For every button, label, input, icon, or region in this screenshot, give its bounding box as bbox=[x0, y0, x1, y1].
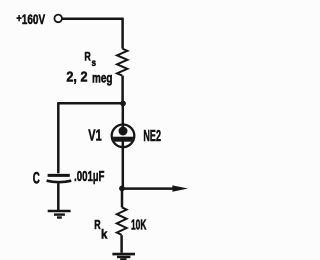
svg-text:10K: 10K bbox=[131, 217, 147, 233]
svg-text:NE2: NE2 bbox=[143, 128, 161, 145]
svg-text:R: R bbox=[84, 49, 91, 63]
svg-text:C: C bbox=[33, 169, 40, 187]
svg-text:V1: V1 bbox=[88, 128, 102, 145]
svg-text:s: s bbox=[92, 57, 97, 69]
svg-text:160V: 160V bbox=[22, 12, 46, 28]
svg-text:meg: meg bbox=[92, 69, 113, 85]
svg-text:.001µF: .001µF bbox=[74, 168, 104, 185]
svg-text:k: k bbox=[101, 227, 108, 242]
svg-text:2, 2: 2, 2 bbox=[66, 70, 87, 86]
svg-text:R: R bbox=[94, 217, 101, 232]
